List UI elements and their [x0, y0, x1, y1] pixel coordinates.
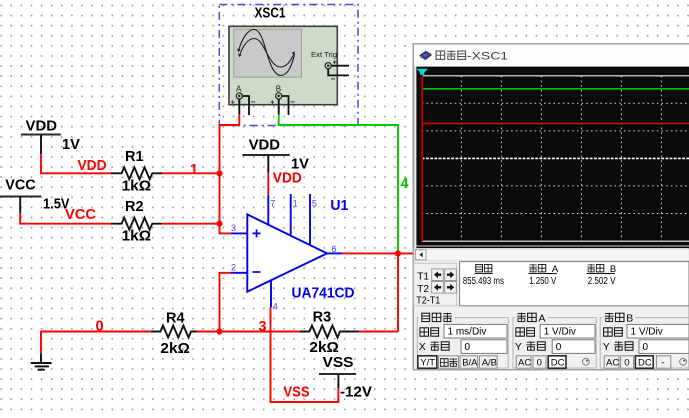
pin 4 lead — [270, 281, 272, 307]
ground wire (red) — [41, 332, 151, 354]
label 比例 B — [604, 328, 623, 336]
op-amp U1 triangle — [247, 214, 327, 291]
input 1 V/Div B — [627, 324, 689, 338]
junction output node4 — [395, 250, 401, 256]
button DC A (selected) — [548, 356, 566, 368]
dial A — [582, 358, 589, 365]
svg-text:−: − — [331, 75, 336, 84]
svg-text:XSC1: XSC1 — [255, 6, 286, 22]
svg-text:VSS: VSS — [284, 384, 310, 400]
svg-text:1 ms/Div: 1 ms/Div — [448, 327, 487, 338]
svg-text:1.250 V: 1.250 V — [529, 276, 556, 287]
junction node1-R1 — [216, 170, 222, 176]
Ext Trig pigtail wires — [332, 65, 349, 67]
scope title text 示波器-XSC1 — [436, 50, 508, 62]
wire VDD2 to pin7 (red) — [267, 173, 269, 195]
terminal A — [236, 93, 242, 99]
label 通道 B — [605, 312, 634, 324]
sine wave outer — [239, 30, 295, 76]
group box 通道A (channel A) — [513, 318, 596, 368]
label X 位置 (X position) — [419, 341, 449, 353]
T2 right button — [445, 282, 457, 294]
wire op-amp - input to node 3 (red) — [220, 273, 232, 332]
wire R2 to node1 (red) — [162, 223, 220, 225]
cursor T1 marker — [417, 69, 428, 75]
header 时间 — [475, 265, 493, 274]
button 加载 — [438, 356, 458, 368]
svg-text:0: 0 — [643, 342, 649, 353]
svg-text:U1: U1 — [330, 197, 348, 214]
T2 left button — [432, 282, 444, 294]
svg-text:1: 1 — [293, 199, 298, 209]
svg-text:B: B — [626, 312, 633, 324]
pin 3 lead — [231, 232, 247, 234]
svg-text:7: 7 — [270, 199, 275, 209]
wire VDD1 to R1 (red) — [41, 154, 111, 173]
svg-text:Ext Trig: Ext Trig — [311, 50, 337, 59]
wire R3 to feedback (red) — [359, 331, 398, 333]
svg-text:VCC: VCC — [65, 207, 97, 223]
svg-text:0: 0 — [465, 342, 471, 353]
svg-text:R3: R3 — [313, 310, 332, 326]
svg-text:0: 0 — [96, 318, 104, 334]
svg-text:T1: T1 — [417, 272, 429, 283]
input 1 ms/Div — [444, 324, 507, 338]
button 0 A — [533, 356, 546, 368]
button A/B — [480, 356, 498, 368]
graticule bottom border — [422, 240, 689, 242]
graticule horizontal gridlines — [422, 103, 689, 213]
wire feedback down (red) — [397, 253, 399, 331]
svg-text:−: − — [290, 98, 295, 107]
terminal A pigtail — [242, 96, 249, 115]
wire scope A stem (black) — [238, 99, 240, 115]
svg-text:0: 0 — [624, 357, 629, 368]
svg-text:4: 4 — [401, 176, 409, 192]
trace channel B (green) — [423, 88, 689, 90]
svg-text:−: − — [251, 98, 256, 107]
wire pin4 to VSS (red) — [271, 307, 339, 402]
junction node1-R2 — [216, 221, 222, 227]
button Y/T (selected) — [418, 356, 437, 368]
svg-text:A/B: A/B — [482, 357, 497, 368]
terminal B — [276, 93, 282, 99]
terminal Ext Trig — [325, 63, 331, 69]
T1 right button — [445, 269, 457, 281]
scope title icon — [419, 51, 431, 60]
svg-text:R1: R1 — [125, 149, 144, 165]
svg-text:VDD: VDD — [273, 170, 302, 186]
scope title bar — [414, 45, 689, 67]
button AC A — [516, 356, 531, 368]
graticule top border — [422, 75, 689, 77]
svg-text:1kΩ: 1kΩ — [122, 179, 152, 195]
svg-text:T2: T2 — [417, 284, 429, 295]
svg-text:A: A — [236, 84, 242, 93]
T1 left button — [432, 269, 444, 281]
instrument screen — [234, 29, 302, 77]
svg-text:UA741CD: UA741CD — [292, 284, 355, 301]
svg-text:X: X — [419, 341, 426, 353]
cursor T1 red line — [421, 75, 423, 242]
svg-text:3: 3 — [259, 319, 267, 335]
svg-text:-12V: -12V — [340, 384, 372, 400]
svg-text:+: + — [270, 99, 274, 106]
svg-text:Y: Y — [603, 341, 610, 353]
svg-text:+: + — [231, 99, 235, 106]
svg-text:1 V/Div: 1 V/Div — [544, 327, 576, 338]
svg-text:VDD: VDD — [78, 158, 107, 174]
button 0 B — [621, 356, 634, 368]
header 通道_B — [586, 264, 616, 275]
terminal B pigtail — [282, 96, 289, 115]
svg-text:R2: R2 — [125, 199, 144, 215]
svg-text:AC: AC — [518, 357, 531, 368]
group box 时间轴 (timebase) — [417, 318, 508, 368]
wire output (red) — [342, 252, 414, 254]
label 比例 A — [516, 328, 535, 336]
sine wave inner — [240, 39, 294, 68]
scrollbar track — [414, 249, 689, 260]
svg-text:B/A: B/A — [462, 357, 478, 368]
scope screen bezel — [414, 67, 689, 249]
readout cursor box T1 T2 — [414, 263, 457, 306]
resistor R2 — [111, 218, 162, 230]
button DC B (selected) — [635, 356, 653, 368]
svg-text:0: 0 — [537, 357, 542, 368]
scrollbar left button — [416, 250, 426, 260]
svg-text:1V: 1V — [62, 137, 80, 153]
button minus B — [656, 356, 670, 368]
label 通道 A — [517, 312, 546, 324]
svg-text:-: - — [661, 357, 664, 368]
wire R1 to node1 (red) — [162, 172, 220, 174]
input Y position 0 A — [552, 340, 595, 354]
svg-text:A: A — [539, 312, 546, 324]
svg-text:Y/T: Y/T — [420, 357, 435, 368]
op-amp - input mark — [253, 271, 261, 273]
svg-text:VCC: VCC — [5, 178, 36, 194]
svg-text:1kΩ: 1kΩ — [122, 229, 152, 245]
svg-text:1: 1 — [190, 162, 198, 178]
svg-text:VSS: VSS — [323, 355, 354, 371]
label 时间轴 — [422, 313, 452, 322]
graticule center axis — [422, 157, 689, 159]
readout values box — [460, 262, 689, 306]
op-amp + input mark — [253, 229, 261, 237]
svg-text:R4: R4 — [166, 311, 185, 327]
button B/A — [460, 356, 478, 368]
wire VCC to R2 (red) — [20, 213, 111, 223]
pin 1 lead — [290, 194, 292, 236]
wire node3 to R3 (red) — [220, 331, 300, 333]
wire scope A to node 1 (red) — [220, 115, 240, 174]
resistor R3 — [300, 326, 359, 338]
svg-text:DC: DC — [638, 357, 652, 368]
input X position 0 — [461, 340, 507, 354]
pin 6 lead — [327, 252, 342, 254]
svg-text:855.493 ms: 855.493 ms — [463, 276, 504, 287]
svg-text:2kΩ: 2kΩ — [309, 340, 339, 356]
svg-text:-XSC1: -XSC1 — [467, 50, 508, 62]
wire scope B stem (black) — [278, 99, 280, 115]
wire R4 to node3 (red) — [197, 331, 220, 333]
button AC B — [604, 356, 619, 368]
svg-text:0: 0 — [556, 342, 562, 353]
svg-text:6: 6 — [332, 244, 337, 254]
label 比例 (scale) — [420, 328, 439, 336]
graticule vertical gridlines — [461, 76, 661, 241]
input Y position 0 B — [639, 340, 689, 354]
ground symbol — [40, 353, 42, 363]
svg-text:VDD: VDD — [26, 119, 58, 135]
oscilloscope XSC1 instrument body — [229, 26, 337, 104]
svg-text:2kΩ: 2kΩ — [160, 341, 190, 357]
pin 2 lead — [231, 272, 247, 274]
svg-text:Y: Y — [515, 341, 522, 353]
resistor R1 — [111, 167, 162, 179]
pin 7 lead — [267, 195, 269, 226]
label Y 位置 B — [603, 341, 633, 353]
header 通道_A — [528, 264, 558, 275]
wire node1 down to op-amp + input — [220, 173, 232, 233]
trace channel A (red) — [423, 122, 689, 124]
svg-text:2: 2 — [231, 262, 236, 272]
scope window frame — [413, 44, 689, 370]
dial B — [680, 358, 687, 365]
svg-text:VDD: VDD — [249, 138, 281, 154]
label Y 位置 A — [515, 341, 545, 353]
svg-text:4: 4 — [273, 302, 278, 312]
svg-text:2.502 V: 2.502 V — [588, 276, 616, 287]
oscilloscope instrument XSC1 dashed selection border — [219, 5, 358, 126]
svg-text:B: B — [276, 84, 281, 93]
wire scope B to output (green) — [279, 115, 398, 254]
junction node3 — [216, 328, 222, 334]
group box 通道B (channel B) — [600, 318, 689, 368]
svg-text:AC: AC — [606, 357, 619, 368]
pin 5 lead — [309, 194, 311, 245]
svg-text:1 V/Div: 1 V/Div — [631, 327, 663, 338]
svg-text:DC: DC — [551, 357, 565, 368]
svg-text:5: 5 — [312, 199, 317, 209]
resistor R4 — [151, 326, 197, 338]
input 1 V/Div A — [540, 324, 595, 338]
screen bezel bottom light edge — [416, 245, 689, 247]
svg-text:3: 3 — [231, 223, 236, 233]
svg-text:T2-T1: T2-T1 — [416, 296, 440, 307]
